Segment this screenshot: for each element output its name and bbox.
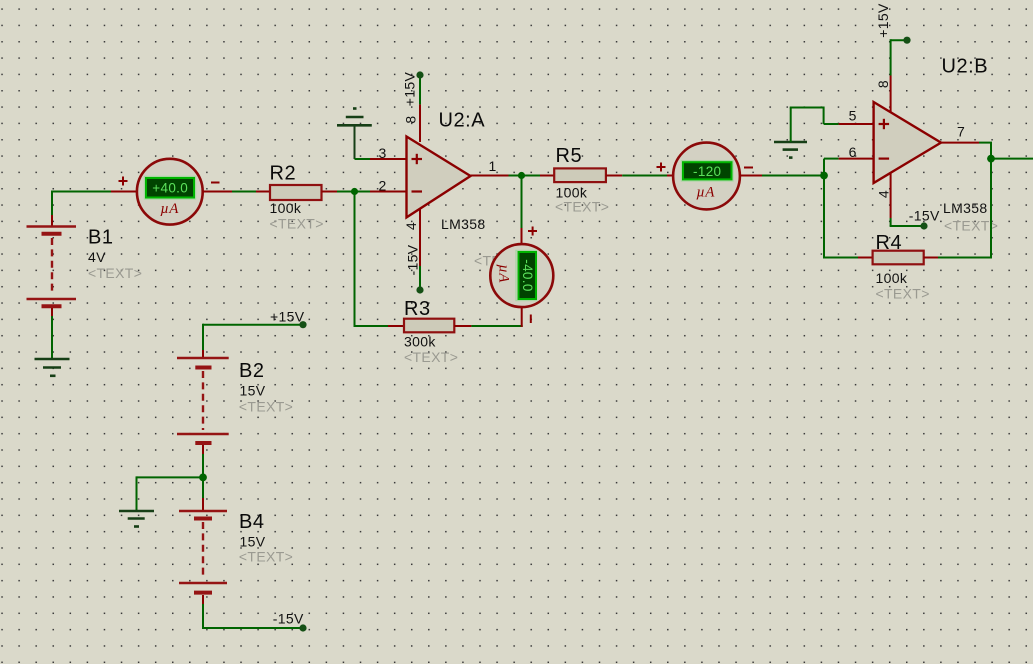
wire R2 to U2:A pin2 [322, 191, 407, 193]
U2:B output pin7 wire [941, 143, 992, 259]
R3 labels [404, 298, 458, 365]
svg-text:2: 2 [379, 178, 387, 194]
AM3 plus mark [528, 227, 537, 236]
B4 labels [239, 511, 293, 565]
wire B4 bottom to -15V terminal [203, 604, 303, 629]
svg-text:R3: R3 [404, 298, 431, 320]
svg-text:4: 4 [403, 222, 419, 230]
svg-text:<TEXT>: <TEXT> [404, 349, 458, 365]
svg-text:+40.0: +40.0 [152, 180, 188, 195]
AM1 minus mark [211, 182, 220, 184]
R2 labels [270, 163, 324, 232]
resistor R5 [554, 168, 606, 182]
AM1 plus mark [119, 177, 128, 186]
AM2 plus mark [657, 163, 666, 172]
battery B1 [27, 227, 77, 318]
power terminal -15V [273, 611, 307, 632]
wire vertical pin6/R4 [823, 159, 825, 258]
svg-text:U2:B: U2:B [942, 56, 989, 78]
resistor R4 [873, 251, 924, 265]
ammeter AM1 +40.0uA [137, 159, 203, 225]
junction node mid supply [199, 474, 207, 482]
svg-text:4V: 4V [88, 249, 106, 265]
wire AM3 top to output junction [521, 175, 523, 245]
ammeter AM3 -40.0uA (rotated) [490, 244, 553, 307]
ground at U2:A pin3 (inverted) [337, 109, 372, 160]
svg-text:µA: µA [696, 185, 715, 201]
op-amp U2:A [407, 137, 471, 218]
wire B1 to ammeter AM1 [51, 191, 138, 193]
ground mid supply [119, 511, 154, 527]
svg-text:<TEXT>: <TEXT> [239, 398, 293, 414]
svg-text:-120: -120 [693, 164, 721, 179]
svg-text:300k: 300k [404, 333, 436, 349]
svg-text:1: 1 [489, 158, 497, 174]
svg-text:U2:A: U2:A [439, 110, 486, 132]
svg-text:8: 8 [403, 115, 419, 123]
power terminal -15V U2:A [416, 286, 423, 293]
svg-text:100k: 100k [876, 270, 908, 286]
wire R4 row [823, 257, 873, 259]
ground B1 [35, 359, 70, 376]
ammeter AM2 -120uA [673, 143, 740, 210]
wire pin6 [824, 158, 874, 160]
svg-text:4: 4 [876, 190, 892, 198]
wire B2 bottom to junction [202, 454, 204, 477]
AM2 minus mark [744, 167, 753, 169]
wire ground to pin3 [355, 158, 407, 160]
svg-text:B4: B4 [239, 511, 265, 533]
wire B2 top lead [202, 324, 204, 358]
B1 label [88, 227, 142, 281]
svg-text:-15V: -15V [405, 244, 421, 275]
power terminal +15V U2:A [416, 71, 423, 78]
wire pin2 junction down to R3 [354, 192, 356, 328]
junction node pin2 [351, 188, 358, 195]
battery B4 [179, 511, 227, 604]
AM3 minus mark [530, 315, 532, 324]
svg-text:<TEXT>: <TEXT> [876, 285, 930, 301]
svg-text:100k: 100k [270, 200, 302, 216]
power terminal -15V U2:B [920, 222, 927, 229]
svg-text:<TEXT>: <TEXT> [270, 216, 324, 232]
svg-text:7: 7 [957, 124, 965, 140]
U2:B pin4 lead [890, 173, 924, 226]
wire to R3 left [354, 325, 405, 327]
svg-text:15V: 15V [240, 382, 266, 398]
svg-text:15V: 15V [240, 533, 266, 549]
svg-text:5: 5 [849, 108, 857, 124]
junction node U2:B input [820, 172, 828, 180]
U2:B pin8 lead [891, 39, 907, 112]
svg-text:µA: µA [495, 264, 511, 283]
svg-text:8: 8 [875, 80, 891, 88]
svg-text:B1: B1 [88, 227, 114, 249]
svg-text:R4: R4 [876, 232, 903, 254]
svg-text:-15V: -15V [909, 207, 940, 223]
svg-text:LM358: LM358 [943, 200, 988, 216]
wire R3 right to AM3 [454, 306, 522, 327]
battery B2 [177, 358, 229, 454]
U2:A output pin1 wire [471, 175, 541, 177]
wire AM2 to U2:B branch [740, 175, 825, 177]
junction node output A [518, 172, 525, 179]
svg-text:B2: B2 [239, 360, 265, 382]
svg-text:-40.0: -40.0 [520, 259, 535, 292]
wire AM1 to R2 [203, 191, 271, 193]
wire R5 to AM2 [606, 175, 674, 177]
U2:A pin4 lead [419, 209, 421, 290]
wire to R5 [540, 175, 554, 177]
junction node output B [987, 155, 995, 163]
svg-text:6: 6 [849, 144, 857, 160]
resistor R3 [404, 319, 454, 333]
wire R4 right [924, 257, 992, 259]
svg-text:R5: R5 [556, 145, 583, 167]
svg-text:-15V: -15V [273, 611, 304, 627]
wire ground to pin5 [790, 107, 874, 143]
svg-text:R2: R2 [270, 163, 297, 185]
B2 labels [239, 360, 293, 414]
U2:A pin8 lead [419, 74, 421, 142]
svg-text:<TEXT>: <TEXT> [555, 198, 609, 214]
wire B1 top lead [51, 192, 53, 228]
+15V terminal B2 [203, 308, 307, 328]
svg-text:LM358: LM358 [441, 216, 486, 232]
wire B1 to ground [51, 316, 53, 359]
svg-text:+15V: +15V [402, 71, 418, 106]
power terminal +15V U2:B [903, 37, 910, 44]
svg-text:<TEXT>: <TEXT> [88, 265, 142, 281]
svg-text:µA: µA [160, 201, 179, 217]
wire junction to ground [137, 476, 204, 511]
op-amp U2:B [874, 102, 941, 183]
svg-text:3: 3 [379, 145, 387, 161]
svg-text:<TEXT>: <TEXT> [239, 549, 293, 565]
R5 labels [555, 145, 609, 214]
wire output B to right edge [991, 158, 1033, 160]
svg-text:+15V: +15V [875, 3, 891, 38]
R4 labels [876, 232, 930, 301]
wire B4 top lead [202, 477, 204, 511]
svg-text:+15V: +15V [270, 308, 305, 324]
resistor R2 [270, 185, 322, 200]
ground at U2:B pin5 [774, 142, 807, 158]
